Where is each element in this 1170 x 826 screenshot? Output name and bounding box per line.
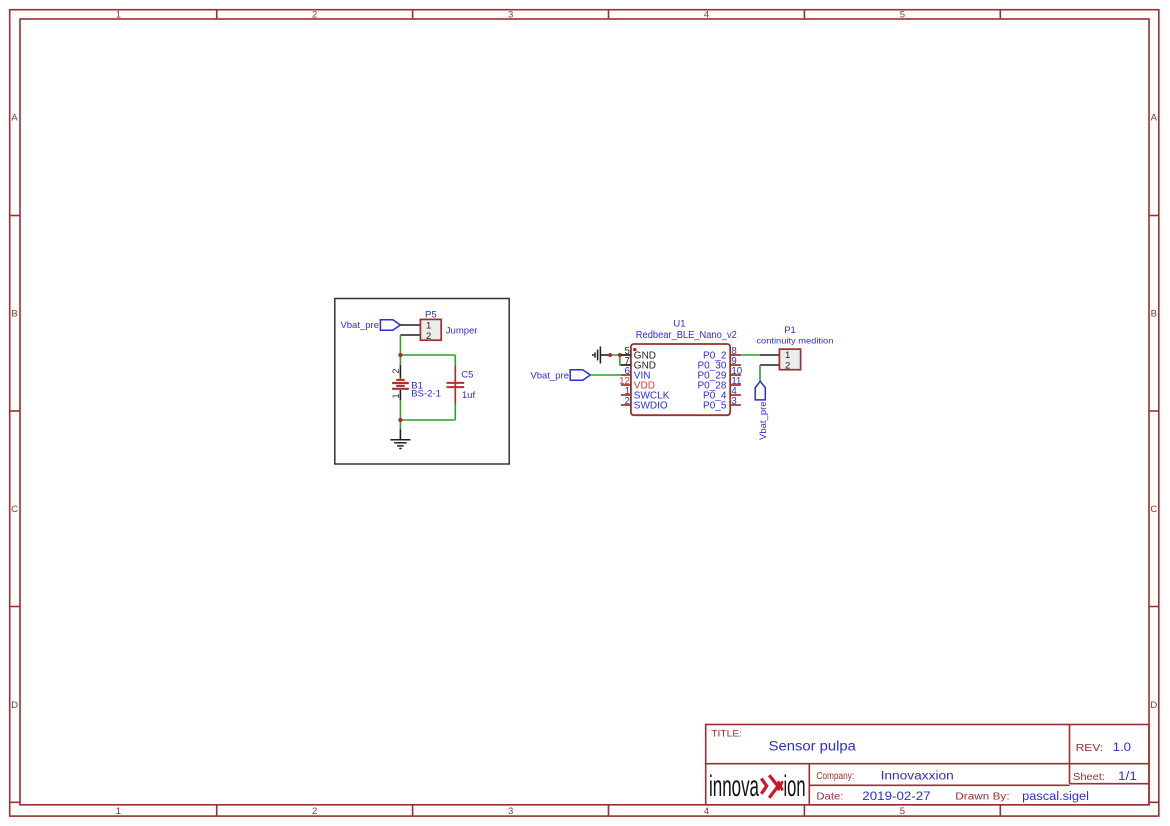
frame right row tick 3 [1149, 606, 1159, 608]
svg-text:ion: ion [784, 770, 806, 803]
connector P1 body [779, 349, 800, 370]
connector P1 pin 2 lead [760, 364, 779, 366]
capacitor C5 [447, 365, 465, 404]
svg-text:Vbat_pre: Vbat_pre [758, 401, 769, 440]
svg-text:SWDIO: SWDIO [634, 401, 668, 412]
frame top column tick 3 [608, 10, 610, 19]
svg-text:4: 4 [704, 10, 709, 21]
junction dot ground net right [618, 353, 622, 357]
wire node to B1 pin2 [399, 355, 401, 365]
innovaxxion logo red XX glyphs [761, 775, 782, 798]
frame right row tick 4 [1149, 801, 1159, 803]
U1 pin 6 lead [621, 374, 631, 376]
frame right row tick 2 [1149, 410, 1159, 412]
wire C5 bottom vertical [454, 404, 456, 420]
connector P5 pin 2 lead [400, 334, 420, 336]
svg-text:2: 2 [785, 361, 790, 372]
svg-text:5: 5 [900, 10, 905, 21]
wire C5 top vertical [454, 355, 456, 365]
svg-text:3: 3 [508, 806, 513, 817]
frame top column tick 1 [216, 10, 218, 19]
svg-text:Drawn By:: Drawn By: [955, 791, 1009, 803]
svg-text:3: 3 [731, 396, 736, 407]
junction dot at battery bottom node [398, 418, 402, 422]
title block divider under TITLE row [706, 763, 1149, 765]
U1 pin 11 lead [730, 384, 741, 386]
svg-text:innova: innova [709, 770, 759, 803]
IC U1 body [631, 344, 730, 415]
connector P5 body [420, 319, 441, 340]
wire node to ground [399, 420, 401, 429]
wire bottom node to C5 [400, 419, 455, 421]
U1 pin 2 lead [621, 404, 631, 406]
svg-text:Vbat_pre: Vbat_pre [340, 320, 379, 331]
U1 pin-1 marker dot [633, 348, 636, 351]
svg-text:U1: U1 [673, 318, 685, 329]
svg-text:1.0: 1.0 [1113, 742, 1131, 754]
frame top column tick 4 [803, 10, 805, 19]
ground symbol (U1 GND pins) [593, 347, 610, 364]
battery sub-circuit enclosure box [335, 299, 509, 465]
U1 pin 10 lead [730, 374, 741, 376]
svg-text:3: 3 [508, 10, 513, 21]
svg-text:C: C [1150, 504, 1157, 515]
connector P5 pin 1 lead [400, 324, 420, 326]
title block divider under Company row [809, 784, 1069, 786]
U1 pin 12 lead [621, 384, 631, 386]
U1 pin 3 lead [730, 404, 741, 406]
svg-text:D: D [11, 700, 18, 711]
U1 pin 5 lead [621, 354, 631, 356]
svg-text:1/1: 1/1 [1118, 771, 1137, 783]
svg-text:Innovaxxion: Innovaxxion [881, 770, 954, 782]
battery B1 [392, 365, 409, 400]
svg-text:Vbat_pre: Vbat_pre [530, 370, 569, 381]
frame bottom column tick 5 [999, 805, 1001, 816]
frame left row tick 3 [10, 606, 20, 608]
svg-text:1: 1 [391, 393, 401, 398]
svg-text:TITLE:: TITLE: [711, 728, 742, 739]
frame right row tick 1 [1149, 215, 1159, 217]
junction dot ground net left [608, 353, 612, 357]
svg-text:2: 2 [426, 331, 431, 342]
svg-text:pascal.sigel: pascal.sigel [1022, 791, 1089, 803]
svg-text:C: C [11, 504, 18, 515]
net label Vbat_pre (at P5) [340, 320, 400, 332]
title block outline [706, 725, 1149, 805]
svg-text:2: 2 [312, 806, 317, 817]
svg-text:Redbear_BLE_Nano_v2: Redbear_BLE_Nano_v2 [636, 330, 737, 341]
frame left row tick 4 [10, 801, 20, 803]
svg-text:4: 4 [704, 806, 709, 817]
svg-text:Date:: Date: [816, 791, 843, 803]
wire ground net between junctions [610, 355, 621, 365]
svg-text:2019-02-27: 2019-02-27 [862, 791, 930, 803]
svg-text:REV:: REV: [1076, 742, 1104, 754]
connector P1 pin 1 lead [760, 354, 780, 356]
svg-text:2: 2 [312, 10, 317, 21]
svg-text:Company:: Company: [816, 771, 854, 782]
frame bottom column tick 3 [608, 805, 610, 816]
net label Vbat_pre (at U1 VIN) [530, 370, 590, 382]
svg-text:P0_5: P0_5 [703, 401, 727, 412]
svg-text:continuity medition: continuity medition [756, 336, 833, 346]
svg-text:P1: P1 [784, 325, 796, 336]
U1 pin 7 lead [621, 364, 631, 366]
svg-text:B: B [1151, 309, 1157, 320]
svg-text:2: 2 [391, 369, 401, 374]
frame top column tick 2 [412, 10, 414, 19]
svg-text:1uf: 1uf [462, 390, 476, 401]
wire B1 pin1 down to ground node [399, 400, 401, 420]
svg-text:1: 1 [116, 10, 121, 21]
svg-text:C5: C5 [461, 369, 473, 380]
svg-text:BS-2-1: BS-2-1 [411, 389, 441, 400]
title block REV column divider [1069, 725, 1071, 784]
svg-text:Sensor pulpa: Sensor pulpa [769, 739, 857, 754]
svg-text:Jumper: Jumper [446, 325, 478, 336]
U1 pin 9 lead [730, 364, 741, 366]
frame bottom column tick 1 [216, 805, 218, 816]
wire from P5 pin2 down to node [399, 335, 401, 355]
title block divider under Sheet row [1070, 783, 1150, 785]
wire Vbat_pre flag to U1 VIN [590, 374, 621, 376]
U1 pin 4 lead [730, 394, 741, 396]
U1 pin 1 lead [621, 394, 631, 396]
svg-text:D: D [1150, 700, 1157, 711]
junction dot at battery top node [398, 353, 402, 357]
svg-text:A: A [11, 113, 18, 124]
svg-text:A: A [1151, 113, 1158, 124]
svg-text:P5: P5 [425, 310, 437, 321]
svg-text:1: 1 [426, 320, 431, 331]
net label Vbat_pre (at P1, rotated) [755, 381, 769, 440]
frame left row tick 2 [10, 410, 20, 412]
frame bottom column tick 4 [803, 805, 805, 816]
wire battery node to C5 top [400, 354, 455, 356]
frame bottom column tick 2 [412, 805, 414, 816]
wire P1 pin2 down to Vbat_pre flag [759, 365, 761, 381]
title block logo cell divider [808, 764, 810, 805]
frame top column tick 5 [999, 10, 1001, 19]
U1 pin 8 lead [730, 354, 741, 356]
ground symbol (battery circuit) [390, 429, 410, 448]
wire U1 P0_2 to P1 pin1 [741, 354, 760, 356]
svg-text:B: B [11, 309, 17, 320]
frame left row tick 1 [10, 215, 20, 217]
svg-text:Sheet:: Sheet: [1073, 772, 1105, 783]
svg-text:2: 2 [625, 396, 630, 407]
svg-text:5: 5 [900, 806, 905, 817]
svg-text:1: 1 [116, 806, 121, 817]
